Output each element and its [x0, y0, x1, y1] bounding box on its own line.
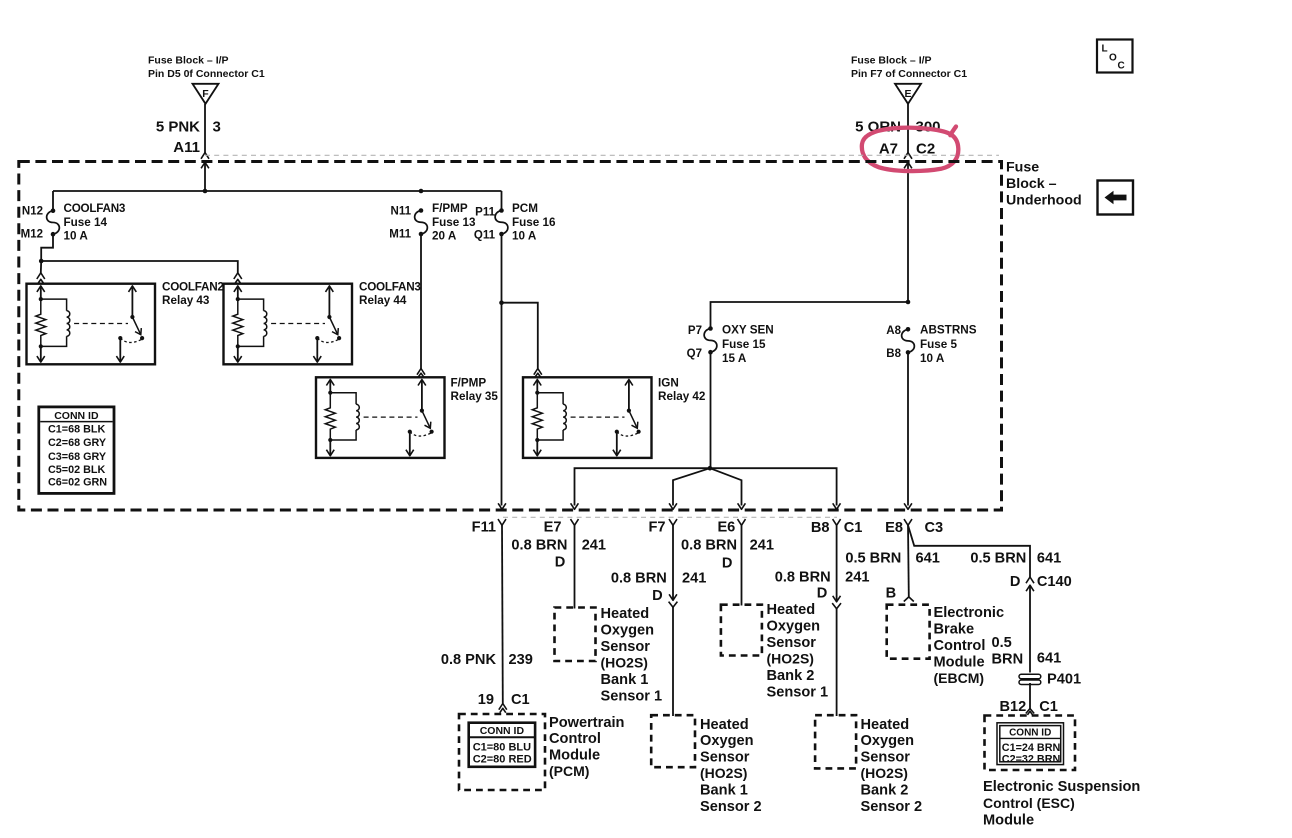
svg-text:Relay 35: Relay 35 [451, 390, 499, 403]
svg-text:C1: C1 [511, 692, 530, 708]
svg-text:P401: P401 [1047, 672, 1081, 688]
svg-text:Block –: Block – [1006, 176, 1057, 192]
svg-text:C1: C1 [1039, 699, 1058, 715]
svg-text:Sensor 1: Sensor 1 [601, 689, 663, 705]
svg-text:Control: Control [934, 638, 986, 654]
wire: connector E down to fuse block border, 5 ORN 300, A7 C2 [907, 104, 909, 153]
svg-text:0.8 BRN: 0.8 BRN [511, 537, 567, 553]
border crossing E8/C3 [904, 503, 912, 509]
in-line connector A11 male arrow inside fuse block [201, 162, 209, 168]
svg-text:241: 241 [682, 570, 706, 586]
svg-text:C3=68 GRY: C3=68 GRY [48, 451, 107, 463]
svg-text:0.5 BRN: 0.5 BRN [970, 550, 1026, 566]
svg-text:COOLFAN3: COOLFAN3 [359, 281, 421, 294]
svg-text:C2=80 RED: C2=80 RED [473, 754, 532, 766]
in-line connector B12/C1 at ESC (female fork) [1026, 709, 1034, 714]
border crossing B8/C1 [833, 503, 841, 509]
svg-text:N12: N12 [22, 206, 43, 218]
svg-text:0.8 BRN: 0.8 BRN [611, 570, 667, 586]
svg-text:Control (ESC): Control (ESC) [983, 795, 1075, 811]
svg-text:A8: A8 [886, 325, 901, 337]
svg-text:10 A: 10 A [64, 229, 89, 242]
svg-text:Powertrain: Powertrain [549, 715, 625, 731]
in-line connector A11 at fuse block border (female fork) [201, 153, 209, 159]
wire: E8 down to EBCM, 0.5 BRN 641, pin B [907, 525, 910, 597]
svg-text:Fuse 13: Fuse 13 [432, 216, 476, 229]
junction A11 wire to bus [203, 189, 208, 194]
node: fuse 14 output branch [39, 259, 44, 264]
svg-text:Pin F7 of Connector C1: Pin F7 of Connector C1 [851, 68, 967, 80]
wire: connector F down to fuse block border, 5 PNK 3, A11 [204, 104, 206, 153]
Heated Oxygen Sensor HO2S Bank 2 Sensor 2 dashed box [815, 715, 856, 768]
svg-text:0.8 BRN: 0.8 BRN [775, 569, 831, 585]
Electronic Suspension Control (ESC) Module dashed box [985, 716, 1076, 771]
LOC icon box (top right) [1097, 40, 1133, 73]
border crossing F11 (arrow + fork) [498, 503, 506, 509]
svg-text:Bank 2: Bank 2 [767, 668, 815, 684]
wire: branch right to B8 drop [710, 468, 837, 505]
svg-text:M12: M12 [21, 229, 43, 241]
in-line connector at relay 42 pin (female fork) [534, 369, 542, 375]
svg-text:Fuse: Fuse [1006, 160, 1039, 176]
svg-text:Brake: Brake [934, 622, 975, 638]
svg-text:Bank 1: Bank 1 [700, 782, 748, 798]
svg-text:Fuse 5: Fuse 5 [920, 338, 958, 351]
Heated Oxygen Sensor HO2S Bank 1 Sensor 2 dashed box [651, 715, 695, 767]
svg-text:CONN ID: CONN ID [1009, 727, 1051, 738]
fuse F16 PCM Fuse 16 10A, pins P11/Q11 [499, 208, 504, 213]
svg-text:(HO2S): (HO2S) [861, 765, 908, 781]
svg-text:N11: N11 [391, 206, 412, 218]
in-line connector at relay 35 pin (female fork) [417, 369, 425, 375]
in-line connector 19/C1 at PCM (female fork) [499, 704, 507, 710]
svg-text:Module: Module [983, 812, 1034, 828]
svg-text:PCM: PCM [512, 202, 538, 215]
svg-text:15 A: 15 A [722, 352, 747, 365]
svg-text:Sensor: Sensor [767, 635, 817, 651]
wire: E7 to HO2S bank1 sensor1, 0.8 BRN 241, pin D [574, 525, 576, 608]
wire: F7 upper segment, 0.8 BRN 241, pin D [672, 525, 674, 600]
svg-text:COOLFAN2: COOLFAN2 [162, 281, 224, 294]
wire: C3 branch across to ESC drop, 0.5 BRN 641 [908, 525, 1030, 577]
junction E wire to OXY SEN branch [906, 300, 911, 305]
connector F (triangle) from Fuse Block - I/P [193, 84, 219, 104]
svg-text:ABSTRNS: ABSTRNS [920, 324, 977, 337]
svg-text:C1=68 BLK: C1=68 BLK [48, 423, 106, 435]
wire: B8 lower segment into HO2S bank2 sensor2 [836, 609, 838, 716]
svg-text:(PCM): (PCM) [549, 763, 589, 779]
svg-text:B8: B8 [886, 348, 901, 360]
svg-text:0.5: 0.5 [992, 635, 1012, 651]
border crossing E7 [571, 503, 579, 509]
PCM CONN ID table [469, 723, 535, 767]
svg-text:F/PMP: F/PMP [432, 202, 468, 215]
Heated Oxygen Sensor HO2S Bank 1 Sensor 1 dashed box [555, 608, 596, 662]
svg-text:D: D [652, 588, 663, 604]
wire: node to COOLFAN2 relay 43 [40, 261, 42, 273]
svg-text:A11: A11 [173, 139, 200, 156]
svg-text:5 PNK: 5 PNK [156, 119, 200, 136]
wire: branch diag to F7 drop [673, 468, 710, 505]
svg-text:Heated: Heated [767, 602, 816, 618]
wire: branch left to E7 drop [575, 468, 710, 505]
svg-text:Heated: Heated [700, 717, 749, 733]
wire: OXY SEN fuse output down to splice node [710, 352, 712, 468]
svg-text:Pin D5 0f Connector C1: Pin D5 0f Connector C1 [148, 68, 265, 80]
svg-text:E6: E6 [717, 519, 735, 535]
svg-text:M11: M11 [389, 229, 411, 241]
svg-text:Q7: Q7 [687, 348, 702, 360]
back-arrow icon box [1098, 181, 1134, 215]
svg-text:Relay 44: Relay 44 [359, 294, 407, 307]
wire: fuse 14 output to relay node [41, 234, 53, 261]
svg-text:Sensor 2: Sensor 2 [700, 799, 762, 815]
svg-text:F/PMP: F/PMP [451, 377, 487, 390]
svg-text:IGN: IGN [658, 377, 679, 390]
wire: ABSTRNS fuse down to bottom border (E8) [907, 352, 909, 505]
svg-text:C: C [1118, 61, 1125, 72]
svg-text:BRN: BRN [992, 652, 1024, 668]
svg-text:Module: Module [934, 655, 985, 671]
Heated Oxygen Sensor HO2S Bank 2 Sensor 1 dashed box [721, 605, 762, 656]
wire: E6 to HO2S bank2 sensor1, 0.8 BRN 241, pin D [741, 525, 743, 605]
svg-text:Oxygen: Oxygen [767, 619, 821, 635]
svg-text:Electronic Suspension: Electronic Suspension [983, 779, 1140, 795]
Fuse Block - Underhood dashed box [19, 162, 1002, 511]
svg-text:(HO2S): (HO2S) [767, 651, 814, 667]
CONN ID table for Fuse Block - Underhood [39, 407, 114, 494]
svg-text:O: O [1109, 53, 1117, 64]
svg-text:241: 241 [750, 537, 774, 553]
in-line connector A7/C2 male arrow inside fuse block [904, 162, 912, 168]
svg-text:C6=02 GRN: C6=02 GRN [48, 477, 107, 489]
svg-text:L: L [1102, 44, 1108, 55]
svg-text:(EBCM): (EBCM) [934, 670, 985, 686]
in-line connector D/C140 (fork + arrow) [1026, 577, 1034, 583]
wire: fuse 16 output down to bottom border (F11) [501, 234, 503, 506]
svg-text:Sensor 1: Sensor 1 [767, 685, 829, 701]
svg-text:COOLFAN3: COOLFAN3 [64, 202, 126, 215]
svg-text:Heated: Heated [861, 717, 910, 733]
in-line connector on B8 wire (arrow into fork) [833, 596, 841, 602]
svg-text:3: 3 [213, 119, 221, 136]
svg-text:P7: P7 [688, 325, 702, 337]
fuse F5 ABSTRNS Fuse 5 10A, pins A8/B8 [906, 327, 911, 332]
svg-text:CONN ID: CONN ID [54, 410, 99, 422]
gray dashed line at bottom border [503, 516, 837, 518]
junction bus to F/PMP fuse [419, 189, 424, 194]
svg-text:C140: C140 [1037, 574, 1072, 590]
wire: F7 lower segment into HO2S bank1 sensor2 [672, 607, 674, 716]
svg-text:Module: Module [549, 748, 600, 764]
in-line connector B at EBCM (female fork) [904, 597, 914, 602]
svg-text:10 A: 10 A [512, 229, 537, 242]
fuse F13 F/PMP Fuse 13 20A, pins N11/M11 [419, 208, 424, 213]
svg-text:20 A: 20 A [432, 229, 457, 242]
in-line connector at relay 43 coil pin (female fork) [37, 273, 45, 279]
svg-text:C2=68 GRY: C2=68 GRY [48, 437, 107, 449]
svg-text:D: D [817, 586, 828, 602]
svg-text:E8: E8 [885, 520, 903, 536]
svg-text:Relay 43: Relay 43 [162, 294, 210, 307]
svg-text:C1: C1 [844, 520, 863, 536]
svg-text:Oxygen: Oxygen [700, 733, 754, 749]
wire: B8/C1 upper segment, 0.8 BRN 241, pin D [836, 525, 838, 602]
node: 4-way branch of OXY SEN feed [708, 466, 713, 471]
svg-text:D: D [1010, 574, 1021, 590]
svg-text:OXY SEN: OXY SEN [722, 324, 774, 337]
svg-text:Fuse Block – I/P: Fuse Block – I/P [148, 55, 229, 67]
svg-text:E7: E7 [544, 519, 562, 535]
wire: branch diag to E6 drop [710, 468, 742, 505]
wire: P401 down to ESC module, B12 C1 [1029, 683, 1031, 709]
in-line connector on F7 wire (arrow into fork) [669, 594, 677, 600]
svg-text:Fuse 14: Fuse 14 [64, 216, 108, 229]
svg-text:Control: Control [549, 731, 601, 747]
svg-text:P11: P11 [475, 207, 495, 219]
svg-text:Electronic: Electronic [934, 605, 1005, 621]
wire: node across to COOLFAN3 relay 44 [41, 261, 238, 273]
svg-text:0.8 BRN: 0.8 BRN [681, 537, 737, 553]
connector E (triangle) from Fuse Block - I/P [895, 84, 921, 104]
svg-text:F: F [202, 88, 209, 100]
fuse F14 COOLFAN3 Fuse 14 10A, pins N12/M12 [51, 208, 56, 213]
Powertrain Control Module (PCM) dashed box [459, 714, 545, 790]
wire: horizontal supply bus inside fuse block [53, 190, 502, 192]
svg-text:Heated: Heated [601, 606, 650, 622]
svg-text:B8: B8 [811, 520, 830, 536]
svg-text:F7: F7 [648, 519, 665, 535]
svg-text:C1=24 BRN: C1=24 BRN [1002, 742, 1061, 754]
svg-text:Sensor: Sensor [861, 750, 911, 766]
svg-text:B12: B12 [1000, 699, 1027, 715]
svg-text:Bank 1: Bank 1 [601, 672, 649, 688]
svg-text:Oxygen: Oxygen [601, 623, 655, 639]
svg-text:Fuse Block – I/P: Fuse Block – I/P [851, 55, 932, 67]
svg-text:Relay 42: Relay 42 [658, 390, 706, 403]
border crossing F7 [669, 503, 677, 509]
svg-text:Oxygen: Oxygen [861, 733, 915, 749]
wire: fuse 13 output down to F/PMP relay 35 [420, 234, 422, 369]
svg-text:241: 241 [845, 569, 869, 585]
Electronic Brake Control Module (EBCM) dashed box [887, 605, 930, 659]
svg-text:(HO2S): (HO2S) [601, 655, 648, 671]
svg-text:C1=80 BLU: C1=80 BLU [473, 742, 531, 754]
svg-text:F11: F11 [472, 519, 496, 535]
wire: F11 to PCM, 0.8 PNK 239, pin 19 C1 [501, 525, 504, 703]
svg-text:Fuse 16: Fuse 16 [512, 216, 556, 229]
svg-text:Underhood: Underhood [1006, 193, 1082, 209]
svg-text:CONN ID: CONN ID [480, 725, 525, 737]
svg-text:0.8 PNK: 0.8 PNK [441, 652, 497, 668]
svg-text:D: D [555, 555, 566, 571]
svg-text:Q11: Q11 [474, 230, 496, 242]
svg-text:C3: C3 [925, 520, 944, 536]
splice P401 [1019, 674, 1041, 679]
svg-text:Sensor: Sensor [601, 639, 651, 655]
hand-drawn pink annotation circle around A7 C2 [862, 127, 958, 172]
in-line connector at relay 44 coil pin (female fork) [234, 273, 242, 279]
fuse F15 OXY SEN Fuse 15 15A, pins P7/Q7 [708, 326, 713, 331]
svg-text:C2=32 BRN: C2=32 BRN [1002, 754, 1061, 766]
svg-text:Sensor: Sensor [700, 750, 750, 766]
svg-text:E: E [904, 88, 911, 100]
svg-text:641: 641 [1037, 651, 1061, 667]
svg-text:239: 239 [509, 652, 533, 668]
gray dashed line at top border [205, 154, 999, 156]
svg-text:19: 19 [478, 692, 494, 708]
svg-text:(HO2S): (HO2S) [700, 765, 747, 781]
svg-text:Fuse 15: Fuse 15 [722, 338, 766, 351]
svg-text:641: 641 [1037, 550, 1061, 566]
svg-text:241: 241 [582, 537, 606, 553]
node: PCM fuse wire branch to IGN relay [499, 300, 504, 305]
in-line connector A7/C2 at fuse block border (female fork) [904, 153, 912, 159]
wire: branch to IGN relay 42 [502, 303, 538, 369]
svg-text:B: B [886, 585, 897, 601]
svg-text:0.5 BRN: 0.5 BRN [845, 551, 901, 567]
svg-text:C5=02 BLK: C5=02 BLK [48, 464, 106, 476]
svg-text:10 A: 10 A [920, 352, 945, 365]
border crossing E6 [738, 503, 746, 509]
svg-text:Bank 2: Bank 2 [861, 782, 909, 798]
svg-text:D: D [722, 556, 733, 572]
wire: E feed across to OXY SEN fuse [711, 302, 909, 329]
svg-text:Sensor 2: Sensor 2 [861, 799, 923, 815]
ESC CONN ID table [997, 723, 1064, 765]
wire: C140 down to splice P401, 0.5 BRN 641 [1029, 587, 1031, 673]
svg-text:641: 641 [916, 551, 940, 567]
